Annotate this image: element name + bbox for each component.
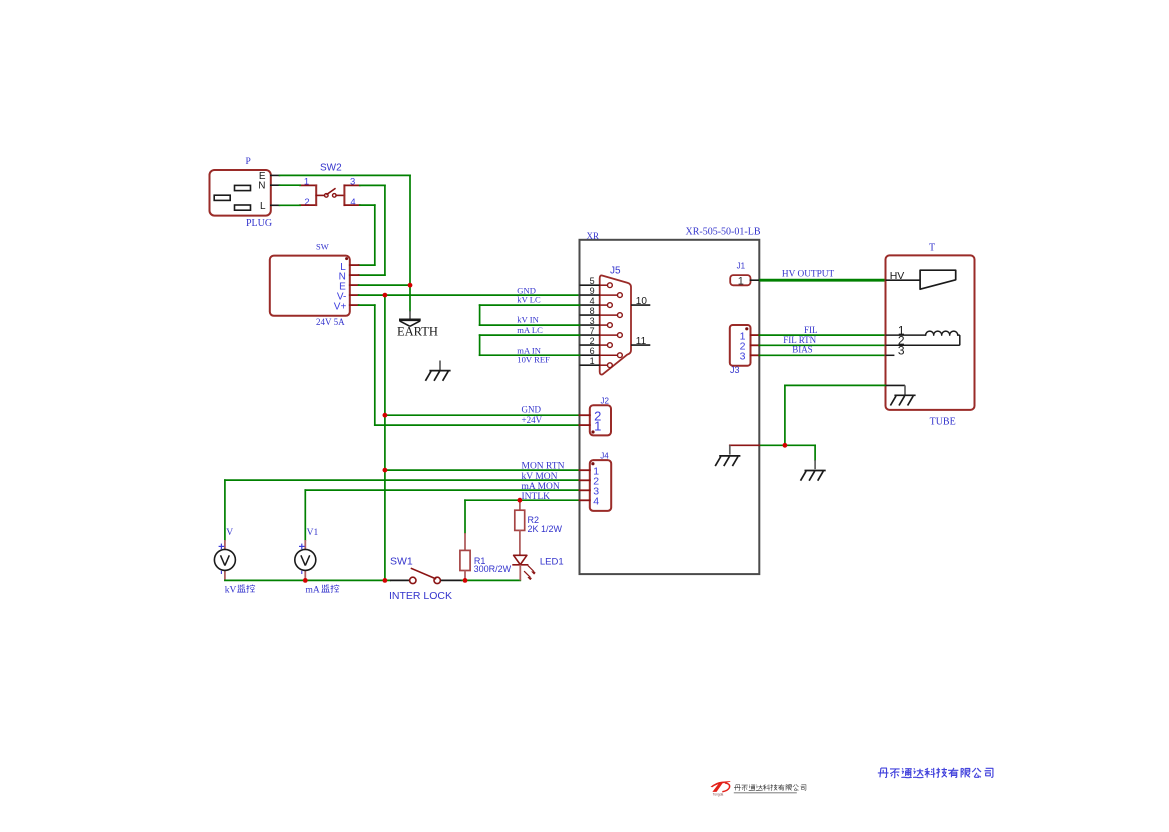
svg-text:kV MON: kV MON bbox=[522, 472, 558, 482]
wire: SW E to earth bbox=[359, 284, 410, 286]
svg-text:T: T bbox=[929, 243, 935, 254]
junction dots overlay bbox=[408, 283, 413, 288]
svg-text:5: 5 bbox=[590, 276, 595, 286]
svg-text:mA: mA bbox=[306, 585, 320, 595]
J5 pin 5 bbox=[580, 276, 613, 288]
svg-text:6: 6 bbox=[590, 346, 595, 356]
svg-text:11: 11 bbox=[636, 336, 647, 347]
svg-text:BIAS: BIAS bbox=[792, 345, 813, 355]
svg-text:Tongda: Tongda bbox=[713, 792, 724, 796]
svg-text:J2: J2 bbox=[601, 396, 610, 405]
wire: SW2 pin3 to SW pin N bbox=[360, 184, 385, 186]
power supply SW 24V 5A bbox=[270, 242, 359, 328]
svg-text:3: 3 bbox=[740, 351, 746, 363]
wire BIAS bbox=[759, 354, 885, 356]
wire FIL RTN bbox=[759, 344, 885, 346]
wire E: plug E to earth vertical bbox=[280, 174, 411, 176]
svg-text:N: N bbox=[258, 181, 265, 192]
svg-text:J1: J1 bbox=[737, 261, 746, 270]
svg-text:kV: kV bbox=[225, 585, 237, 595]
wire kV LC loop pin4-pin3 bbox=[480, 304, 580, 306]
wire to right ground bbox=[785, 444, 815, 446]
wire mA MON: meter V1 to J4 pin3 bbox=[305, 489, 579, 491]
J5 pin 9 bbox=[580, 286, 623, 298]
voltmeter V bbox=[214, 528, 235, 580]
connector J4 bbox=[580, 452, 612, 511]
wire INTLK to J4 pin4 bbox=[465, 499, 580, 501]
wire: SW2 pin4 to SW pin L bbox=[360, 204, 375, 206]
svg-text:EARTH: EARTH bbox=[397, 325, 438, 339]
svg-text:4: 4 bbox=[593, 496, 599, 508]
wire +24V: SW V+ to J2 pin1 bbox=[359, 304, 375, 306]
svg-text:GND: GND bbox=[522, 405, 542, 415]
svg-text:9: 9 bbox=[590, 286, 595, 296]
ground symbol left bbox=[729, 445, 731, 454]
J5 pin 6 bbox=[580, 346, 623, 358]
J5 pin 3 bbox=[580, 316, 613, 328]
svg-text:PLUG: PLUG bbox=[246, 218, 272, 229]
J5 pin 8 bbox=[580, 306, 623, 318]
svg-text:XR-505-50-01-LB: XR-505-50-01-LB bbox=[686, 226, 761, 237]
wire FIL bbox=[759, 334, 885, 336]
TUBE pin 3 stub bbox=[886, 354, 895, 356]
wire to left ground (inside XR) bbox=[759, 444, 785, 446]
svg-text:kV IN: kV IN bbox=[517, 315, 539, 325]
connector J1 bbox=[730, 261, 759, 287]
svg-text:INTLK: INTLK bbox=[522, 492, 551, 502]
resistor R1 300R/2W bbox=[460, 533, 512, 580]
svg-text:mA LC: mA LC bbox=[517, 325, 543, 335]
J5 pin 4 bbox=[580, 296, 613, 308]
svg-text:1: 1 bbox=[594, 419, 601, 434]
module XR XR-505-50-01-LB bbox=[580, 240, 760, 574]
wire: tube ground to earth points bbox=[785, 384, 885, 386]
power plug P (PLUG) bbox=[210, 157, 280, 229]
company name (CJK, blue) bbox=[878, 768, 993, 778]
svg-text:kV LC: kV LC bbox=[517, 294, 541, 304]
TUBE pin HV / anode bbox=[886, 270, 956, 289]
wire GND: SW V- to XR J5 pin9 bbox=[359, 294, 580, 296]
svg-text:TUBE: TUBE bbox=[930, 416, 956, 427]
connector J3 bbox=[730, 325, 760, 375]
x-ray tube T (TUBE) bbox=[886, 243, 975, 428]
J5 pin 10 stub bbox=[631, 304, 650, 306]
Tongda logo mark (red) bbox=[711, 781, 731, 796]
svg-text:L: L bbox=[260, 201, 266, 212]
svg-text:mA MON: mA MON bbox=[522, 482, 560, 492]
svg-text:8: 8 bbox=[590, 306, 595, 316]
svg-text:MON RTN: MON RTN bbox=[522, 462, 565, 472]
svg-text:V+: V+ bbox=[334, 302, 347, 313]
logo company text (small, dark) bbox=[734, 784, 806, 790]
svg-text:SW: SW bbox=[316, 242, 329, 252]
svg-text:LED1: LED1 bbox=[540, 556, 564, 567]
wire GND to J2 pin2 bbox=[385, 414, 580, 416]
wire: SW1 to R1/LED rail bbox=[462, 579, 520, 581]
text kV jiankong / mA jiankong (CJK approximated) bbox=[0, 0, 1, 1]
J5 pin 2 bbox=[580, 336, 613, 348]
svg-text:HV OUTPUT: HV OUTPUT bbox=[782, 269, 835, 279]
TUBE filament pins 1/2 bbox=[886, 323, 960, 357]
J5 pin 7 bbox=[580, 326, 623, 338]
wire N: plug N to SW2 pin1 bbox=[280, 184, 301, 186]
ground symbol right bbox=[814, 460, 816, 469]
svg-text:2: 2 bbox=[590, 336, 595, 346]
svg-text:2K 1/2W: 2K 1/2W bbox=[528, 524, 563, 534]
J5 pin 1 bbox=[580, 356, 613, 368]
svg-text:300R/2W: 300R/2W bbox=[474, 564, 512, 574]
switch SW1 INTER LOCK bbox=[389, 555, 462, 602]
svg-text:V1: V1 bbox=[307, 528, 319, 538]
connector J2 bbox=[580, 396, 612, 435]
svg-text:J3: J3 bbox=[730, 365, 740, 375]
svg-text:+24V: +24V bbox=[522, 415, 543, 425]
svg-text:INTER LOCK: INTER LOCK bbox=[389, 590, 452, 602]
svg-text:J5: J5 bbox=[610, 266, 621, 277]
svg-text:10V REF: 10V REF bbox=[517, 355, 550, 365]
svg-text:7: 7 bbox=[590, 326, 595, 336]
voltmeter V1 bbox=[295, 528, 319, 580]
resistor R2 2K 1/2W bbox=[515, 500, 563, 555]
wire L: plug L to SW2 pin2 bbox=[280, 204, 301, 206]
svg-text:3: 3 bbox=[590, 316, 595, 326]
svg-text:XR: XR bbox=[587, 231, 600, 241]
J5 pin 11 stub bbox=[631, 344, 650, 346]
wire HV OUTPUT (thick) bbox=[759, 279, 885, 282]
svg-text:1: 1 bbox=[590, 356, 595, 366]
svg-text:SW1: SW1 bbox=[390, 555, 413, 567]
switch SW2 (DPST) bbox=[300, 163, 360, 208]
wire: V- vertical down to interlock bbox=[384, 295, 386, 580]
connector J5 (DB9) bbox=[600, 266, 631, 375]
svg-text:10: 10 bbox=[636, 296, 648, 307]
svg-text:FIL: FIL bbox=[804, 325, 818, 335]
TUBE internal ground bbox=[886, 385, 916, 405]
svg-text:2: 2 bbox=[304, 197, 309, 208]
svg-text:P: P bbox=[246, 157, 251, 167]
svg-text:SW2: SW2 bbox=[320, 163, 342, 174]
svg-text:24V 5A: 24V 5A bbox=[316, 317, 345, 327]
svg-text:V: V bbox=[226, 528, 233, 538]
wire mA LC loop pin7-pin6 bbox=[480, 334, 580, 336]
LED LED1 bbox=[512, 555, 563, 580]
wire kV MON: meter V to J4 pin2 bbox=[225, 479, 580, 481]
wire MON RTN to J4 pin1 bbox=[385, 469, 580, 471]
wire: meters bottom rail bbox=[225, 579, 390, 581]
svg-text:4: 4 bbox=[350, 197, 355, 208]
floating earth ground bbox=[439, 361, 441, 371]
svg-text:1: 1 bbox=[738, 275, 744, 287]
svg-text:4: 4 bbox=[590, 296, 595, 306]
earth ground below junction bbox=[409, 311, 411, 320]
